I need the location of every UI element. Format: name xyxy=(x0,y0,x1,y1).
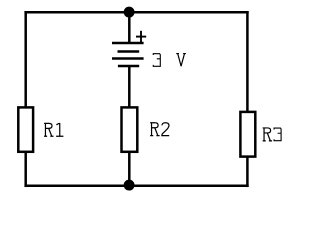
label R1 xyxy=(44,123,63,136)
label 3 (battery value) xyxy=(153,54,160,67)
battery plus polarity mark xyxy=(136,31,146,43)
label V (battery unit) xyxy=(176,54,186,67)
wire middle branch battery-to-R2 xyxy=(128,66,131,108)
wire left branch lower xyxy=(24,152,27,187)
battery B1 (3 V source) xyxy=(112,43,144,66)
wire bottom horizontal xyxy=(24,185,248,188)
label R2 xyxy=(150,123,169,136)
resistor R1 xyxy=(18,107,33,151)
wire middle branch R2-to-node xyxy=(128,152,131,186)
node top junction xyxy=(124,7,135,18)
wire top horizontal xyxy=(24,11,248,14)
resistor R2 xyxy=(122,107,138,151)
node bottom junction xyxy=(124,180,135,191)
wire right branch lower xyxy=(246,157,249,187)
wire middle branch node-to-battery xyxy=(128,12,131,43)
label R3 xyxy=(263,128,281,141)
wire left branch upper xyxy=(24,11,27,107)
wire right branch upper xyxy=(246,11,249,112)
resistor R3 xyxy=(240,112,255,157)
